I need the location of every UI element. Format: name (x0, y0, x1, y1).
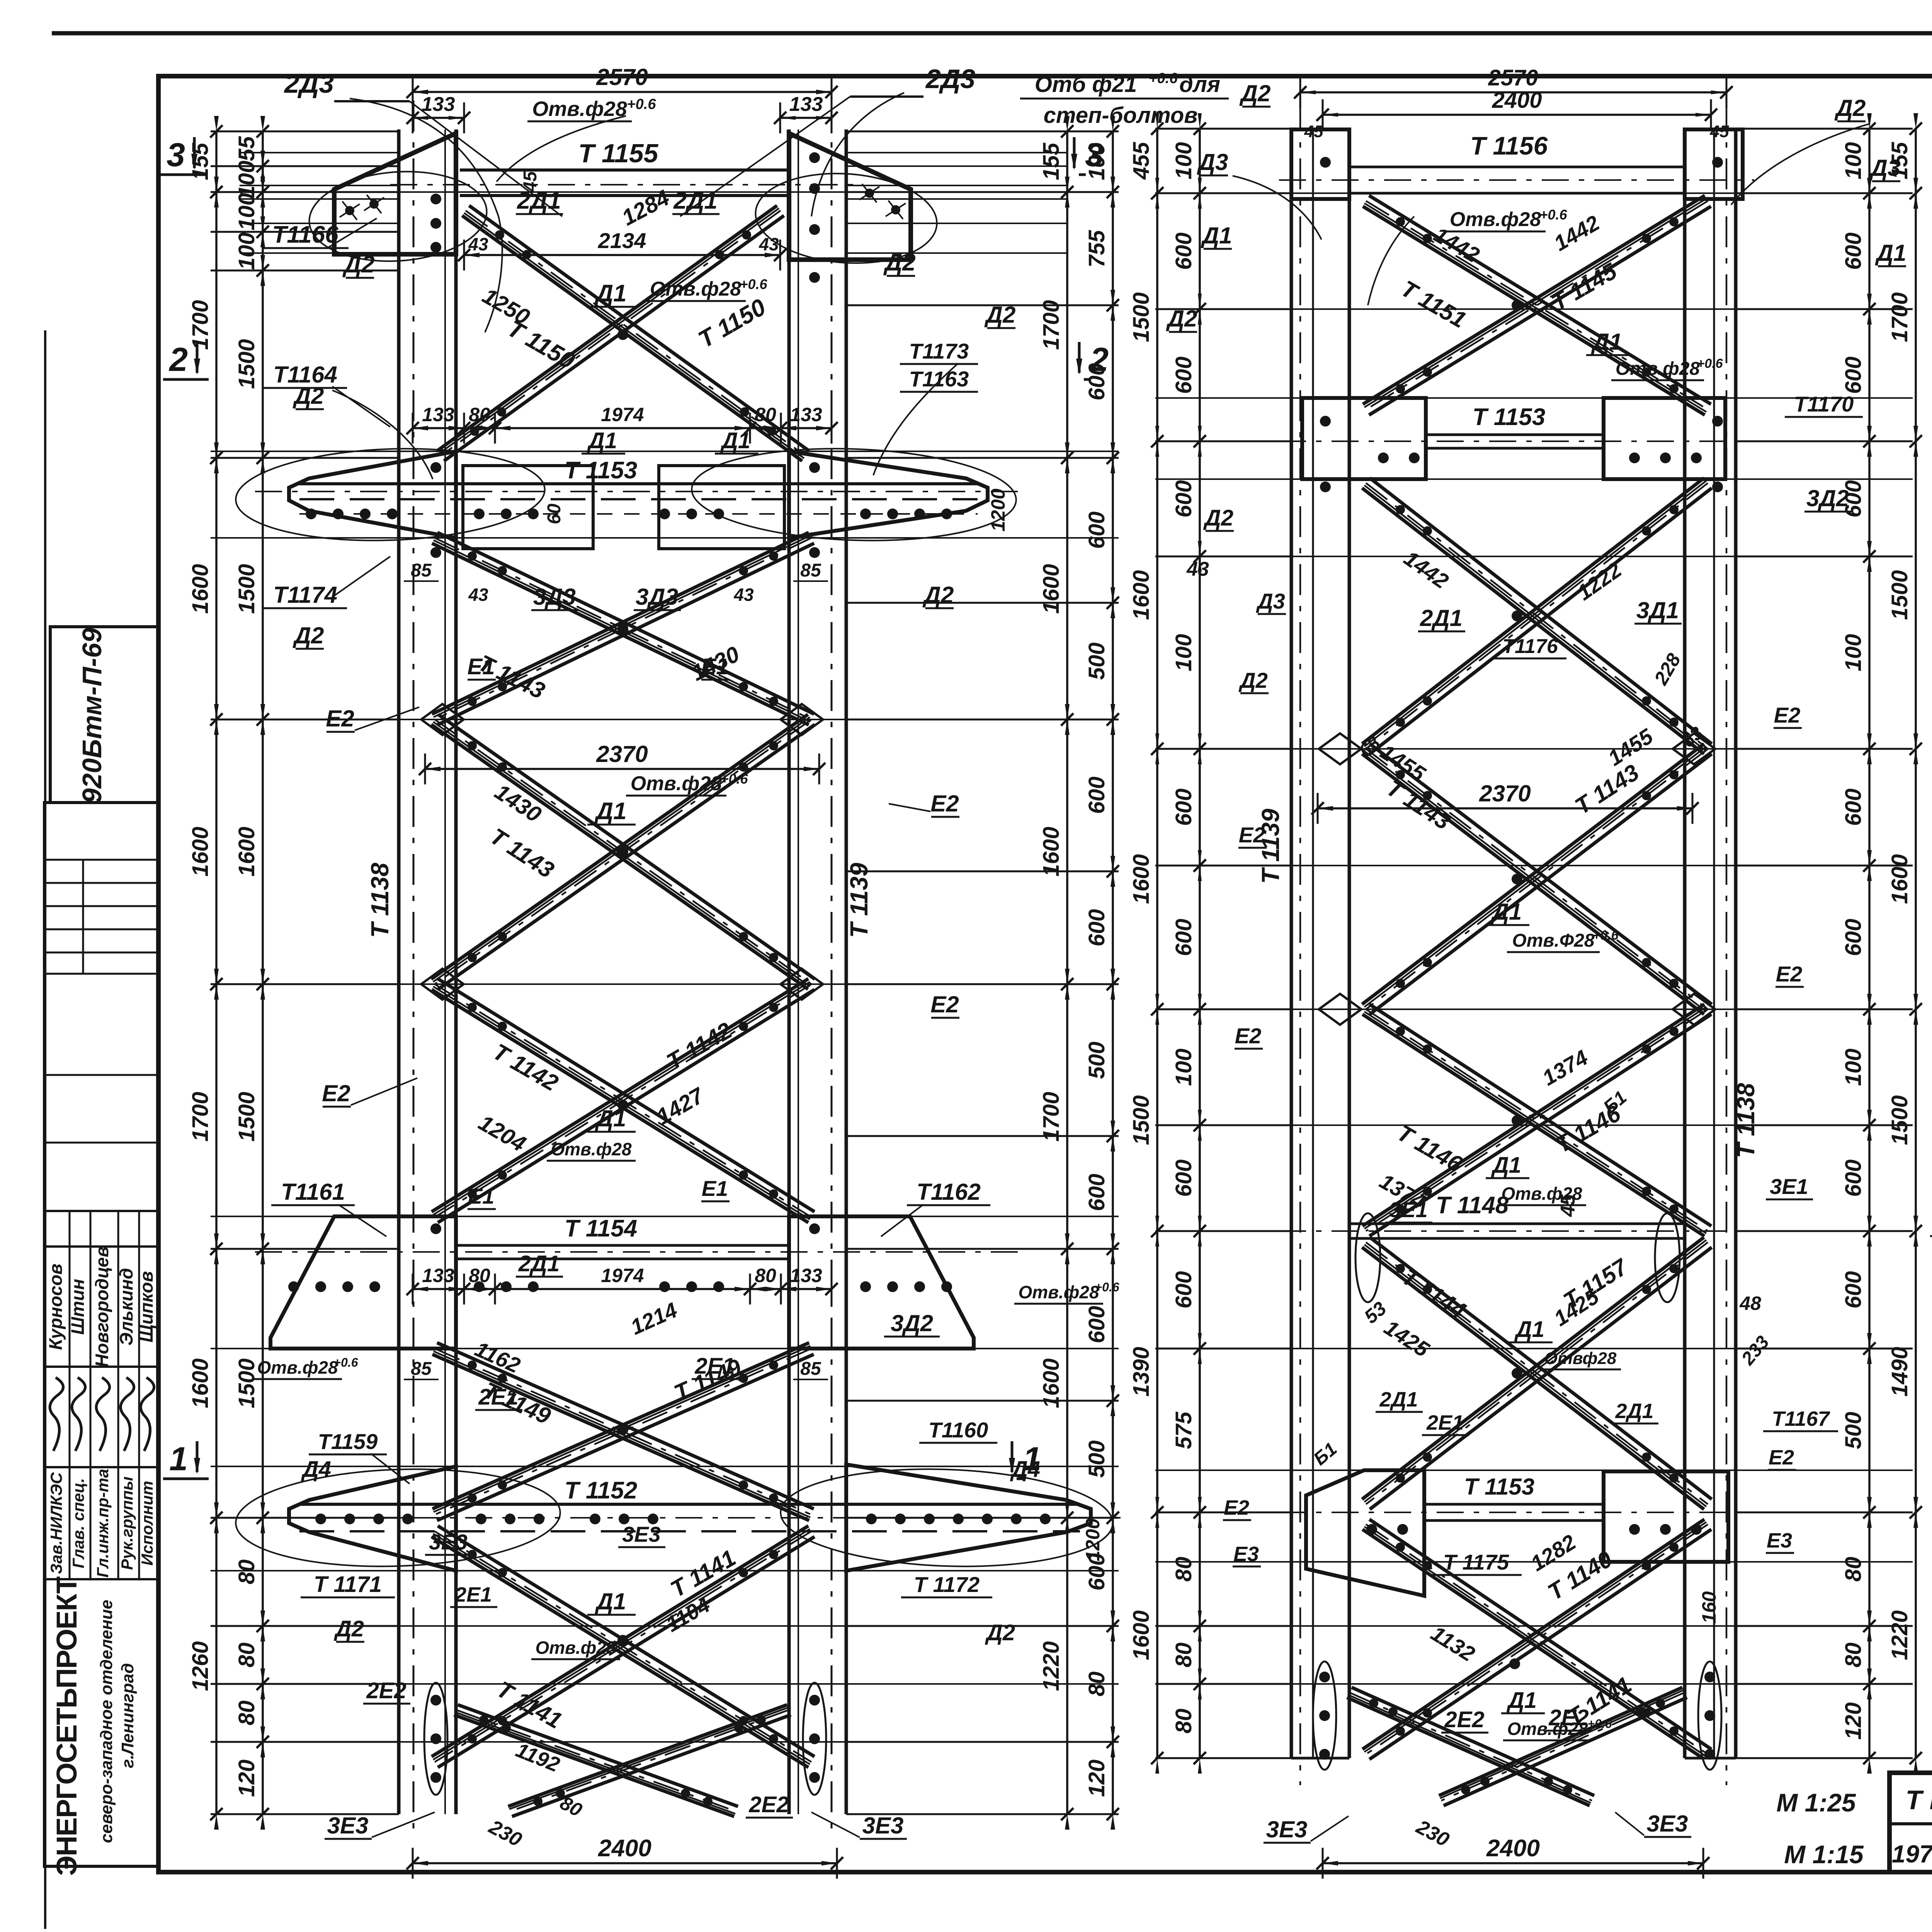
svg-text:Штин: Штин (67, 1279, 88, 1335)
svg-text:Отв.ф28: Отв.ф28 (257, 1357, 338, 1378)
svg-text:80: 80 (755, 1265, 776, 1286)
tower2 X-brace panel 5 (T1144/T1157) (1362, 1247, 1704, 1509)
svg-text:100: 100 (234, 233, 259, 270)
svg-text:Т1173: Т1173 (909, 339, 969, 363)
svg-text:Т 1156: Т 1156 (1470, 131, 1548, 160)
svg-text:Т1163: Т1163 (909, 367, 969, 391)
svg-text:+0.6: +0.6 (333, 1355, 358, 1369)
tower1 level-3 bolt dots (288, 1281, 299, 1292)
svg-text:1600: 1600 (234, 827, 259, 876)
tower1 junction diamonds level 1862 (421, 704, 464, 735)
svg-text:100: 100 (1171, 142, 1196, 180)
svg-text:Т 1154: Т 1154 (565, 1215, 637, 1242)
svg-text:2Е2: 2Е2 (1548, 1705, 1588, 1730)
svg-text:северо-западное отделение: северо-западное отделение (97, 1600, 116, 1843)
svg-text:+0.6: +0.6 (1148, 70, 1178, 87)
svg-text:Д1: Д1 (720, 428, 750, 453)
svg-text:Т1167: Т1167 (1772, 1407, 1830, 1430)
svg-text:80: 80 (1841, 1643, 1866, 1668)
svg-text:600: 600 (1171, 1271, 1196, 1309)
svg-text:575: 575 (1171, 1412, 1196, 1449)
svg-text:1600: 1600 (188, 564, 213, 614)
svg-text:2Е1: 2Е1 (478, 1384, 518, 1410)
tower1 bottom belt bolt rows (315, 1514, 326, 1524)
svg-text:80: 80 (1171, 1557, 1196, 1582)
svg-text:Отвф28: Отвф28 (1544, 1349, 1617, 1368)
tower1 X-brace panel 3 (431, 724, 808, 989)
svg-text:1600: 1600 (188, 1358, 213, 1408)
svg-text:Д1: Д1 (1506, 1688, 1537, 1713)
tower1 level-3 left plate T1161 (270, 1216, 456, 1349)
svg-text:1200: 1200 (987, 488, 1009, 531)
svg-text:1500: 1500 (1887, 1095, 1912, 1145)
tower1 right chord T1139 (787, 129, 791, 1814)
tower2 right dim columns (1868, 129, 1871, 1758)
svg-text:ЭНЕРГОСЕТЬПРОЕКТ: ЭНЕРГОСЕТЬПРОЕКТ (51, 1577, 83, 1876)
svg-text:3Е3: 3Е3 (1266, 1816, 1308, 1842)
svg-text:Т 1148: Т 1148 (1436, 1192, 1509, 1219)
svg-text:+0.6: +0.6 (627, 96, 656, 112)
svg-text:80: 80 (1841, 1557, 1866, 1582)
tower1 right dim column C (1066, 131, 1068, 1814)
tower1 top zone sub-dim lines right (846, 152, 1066, 153)
svg-text:2570: 2570 (1488, 65, 1538, 90)
tower1 level-3 right plate T1162 (789, 1216, 974, 1349)
tower2 belt T1148 (1349, 1223, 1685, 1225)
tower1 apex leader lines 2Д3 (334, 100, 410, 102)
left stamp signatures (scribbles) (50, 1378, 63, 1451)
tower1 X-brace panel 2 (T1143) (432, 543, 809, 725)
svg-text:600: 600 (1171, 1160, 1196, 1197)
svg-text:Е2: Е2 (322, 1080, 350, 1106)
svg-text:2Е2: 2Е2 (366, 1678, 406, 1703)
tower1 left chord T1138 (397, 129, 401, 1814)
svg-text:Д2: Д2 (922, 582, 954, 608)
svg-text:55: 55 (234, 136, 259, 161)
svg-text:45: 45 (1710, 122, 1729, 141)
svg-text:Е3: Е3 (1767, 1529, 1792, 1552)
svg-text:80: 80 (1171, 1643, 1196, 1668)
svg-text:Е2: Е2 (1224, 1496, 1249, 1519)
svg-text:1700: 1700 (1039, 300, 1064, 350)
svg-text:+0.6: +0.6 (740, 276, 767, 292)
tower2 top dims (1300, 91, 1726, 94)
svg-text:+0.6: +0.6 (720, 771, 748, 787)
tower1 X-brace T1150 panel 1 (462, 216, 802, 461)
svg-text:Д3: Д3 (1256, 589, 1285, 613)
tower2 lower belt T1153 (1424, 1503, 1604, 1506)
svg-text:1600: 1600 (1129, 1610, 1154, 1660)
svg-text:600: 600 (1841, 233, 1866, 270)
tower2 X-brace panel 4 (T1146) (1362, 1014, 1704, 1236)
svg-text:Д2: Д2 (342, 251, 374, 278)
svg-text:43: 43 (468, 585, 488, 605)
svg-text:Т1159: Т1159 (318, 1429, 378, 1454)
svg-text:1260: 1260 (188, 1641, 213, 1691)
svg-text:80: 80 (234, 1701, 259, 1726)
svg-text:Д2: Д2 (1203, 505, 1233, 531)
svg-text:160: 160 (1698, 1591, 1720, 1624)
tower2 right extension lines (1736, 128, 1913, 130)
svg-text:Т1174: Т1174 (273, 582, 337, 608)
svg-text:Т 1171: Т 1171 (314, 1572, 382, 1597)
svg-text:43: 43 (733, 585, 754, 605)
tower1 level-2 wing outline curves (234, 444, 546, 546)
svg-text:2Е2: 2Е2 (748, 1792, 789, 1817)
dim columns between towers (1156, 129, 1158, 1758)
tower1 top 133 dims (413, 117, 464, 119)
svg-text:Д2: Д2 (985, 1620, 1015, 1645)
svg-text:Д2: Д2 (883, 249, 915, 276)
svg-text:1500: 1500 (234, 1358, 259, 1408)
svg-text:1600: 1600 (1129, 854, 1154, 904)
svg-text:1220: 1220 (1887, 1610, 1912, 1660)
tower1 top wing outline curves (306, 166, 490, 267)
tower1 junction diamonds level 2547 (421, 969, 464, 1000)
tower2 left extension lines (1155, 128, 1291, 130)
svg-text:600: 600 (1084, 1306, 1109, 1344)
svg-text:Е2: Е2 (1776, 962, 1803, 986)
svg-text:Отв.Ф28: Отв.Ф28 (1512, 930, 1595, 951)
svg-text:1700: 1700 (1039, 1092, 1064, 1141)
svg-text:43: 43 (468, 234, 488, 254)
left stamp person column dividers (69, 1211, 71, 1579)
svg-text:Д2: Д2 (1834, 95, 1866, 121)
svg-text:1600: 1600 (1039, 827, 1064, 876)
svg-text:1600: 1600 (1039, 564, 1064, 614)
tower2 X-brace panel 2 (1362, 488, 1704, 754)
svg-text:60: 60 (544, 503, 565, 524)
svg-text:500: 500 (1084, 1042, 1109, 1079)
svg-text:Д1: Д1 (595, 1105, 626, 1131)
svg-text:Т 1138: Т 1138 (1732, 1083, 1760, 1158)
svg-text:М 1:15: М 1:15 (1784, 1840, 1864, 1869)
svg-text:М 1:25: М 1:25 (1776, 1788, 1856, 1817)
svg-text:Д4: Д4 (301, 1457, 331, 1482)
tower2 bottom-right plate (1604, 1471, 1728, 1562)
svg-text:600: 600 (1171, 789, 1196, 826)
tower2 level T1153 right plate T1170 (1604, 398, 1725, 479)
svg-text:2Д1: 2Д1 (1420, 605, 1463, 631)
svg-text:+0.6: +0.6 (1095, 1280, 1119, 1294)
svg-text:Т1176: Т1176 (1502, 635, 1558, 658)
svg-text:133: 133 (422, 93, 455, 116)
svg-text:3Д2: 3Д2 (891, 1310, 933, 1336)
svg-text:3Е3: 3Е3 (327, 1813, 369, 1838)
svg-text:1500: 1500 (234, 564, 259, 614)
svg-text:1500: 1500 (234, 1092, 259, 1141)
svg-text:2370: 2370 (596, 741, 648, 767)
svg-text:600: 600 (1841, 357, 1866, 394)
svg-text:Е1: Е1 (468, 654, 495, 679)
svg-text:133: 133 (790, 1265, 822, 1286)
tower1 top-left gusset plate T1166 (334, 133, 456, 254)
svg-text:Д1: Д1 (1875, 240, 1906, 266)
sheet outer top edge line (52, 31, 1932, 36)
svg-text:3Д1: 3Д1 (1636, 597, 1679, 623)
svg-text:Глав. спец.: Глав. спец. (69, 1478, 87, 1568)
svg-text:120: 120 (1841, 1702, 1866, 1740)
tower1 bottom-left wing plate T1159 (289, 1466, 456, 1571)
svg-text:Д1: Д1 (594, 798, 626, 825)
svg-text:2Е1: 2Е1 (1426, 1411, 1464, 1434)
tower2 bottom chord bolt ovals (1313, 1662, 1336, 1770)
svg-text:1600: 1600 (1129, 570, 1154, 620)
svg-text:Отв.ф28: Отв.ф28 (535, 1638, 616, 1658)
svg-text:2Д3: 2Д3 (284, 68, 334, 99)
tower1 level-2 left wing plate T1164 (289, 451, 456, 538)
svg-text:Е1: Е1 (702, 1176, 728, 1201)
svg-text:Отв.ф28: Отв.ф28 (631, 772, 722, 795)
svg-text:Е1: Е1 (468, 1184, 495, 1208)
svg-text:3: 3 (1085, 136, 1104, 173)
svg-text:1220: 1220 (1039, 1641, 1064, 1691)
left stamp rows (empty upper cells) (44, 859, 158, 861)
tower1 belt T1153 level 2 (299, 482, 978, 485)
svg-text:Отб ф21: Отб ф21 (1035, 72, 1137, 97)
svg-text:80: 80 (755, 404, 776, 425)
svg-text:2570: 2570 (596, 64, 648, 90)
tower2 top chord head plates (1291, 129, 1349, 199)
svg-text:Новгородцев: Новгородцев (92, 1246, 112, 1367)
svg-text:600: 600 (1084, 512, 1109, 549)
tower1 left extension lines (211, 131, 399, 133)
svg-text:Отв.ф28: Отв.ф28 (1450, 208, 1541, 231)
svg-text:1700: 1700 (188, 1092, 213, 1141)
svg-text:600: 600 (1841, 480, 1866, 518)
svg-text:80: 80 (234, 1643, 259, 1668)
svg-text:1700: 1700 (1887, 292, 1912, 342)
svg-text:Е2: Е2 (1239, 823, 1265, 847)
tower2 right chord T1138 (1683, 129, 1687, 1758)
svg-text:Рук.группы: Рук.группы (118, 1476, 136, 1570)
svg-text:2Д1: 2Д1 (673, 187, 718, 214)
svg-text:2Д1: 2Д1 (517, 187, 561, 214)
tower1 level-2 mid plates (463, 466, 593, 549)
svg-text:45: 45 (1557, 1194, 1579, 1217)
svg-text:Д1: Д1 (595, 1588, 626, 1614)
svg-text:3Д3: 3Д3 (636, 584, 678, 610)
svg-text:1500: 1500 (1129, 292, 1154, 342)
svg-text:3Е3: 3Е3 (1647, 1811, 1688, 1837)
svg-text:755: 755 (1084, 230, 1109, 268)
tower1 belt T1152 (299, 1503, 1080, 1506)
svg-text:Т 1153: Т 1153 (1473, 404, 1545, 430)
left stamp: document code box 920Бтм-П-69 (50, 627, 158, 803)
svg-text:для: для (1179, 72, 1220, 97)
tower2 chord bottom ends (1291, 1757, 1349, 1760)
svg-text:600: 600 (1171, 480, 1196, 518)
tower1 left dim column A (215, 131, 218, 1814)
svg-text:80: 80 (469, 1265, 490, 1286)
tower1 bottom-right wing plate T1160 (846, 1464, 1091, 1571)
tower2 left chord T1139 (1290, 129, 1293, 1758)
svg-text:2134: 2134 (598, 228, 646, 253)
svg-text:Отв.ф28: Отв.ф28 (551, 1139, 632, 1159)
svg-text:2Д1: 2Д1 (1615, 1400, 1653, 1423)
svg-text:133: 133 (422, 404, 454, 425)
svg-text:3: 3 (167, 136, 185, 173)
svg-text:1976г: 1976г (1892, 1840, 1932, 1868)
svg-text:Т1162: Т1162 (917, 1179, 981, 1205)
svg-text:600: 600 (1841, 1271, 1866, 1309)
svg-text:Т 1153: Т 1153 (1464, 1474, 1534, 1500)
svg-text:500: 500 (1084, 643, 1109, 680)
svg-text:1600: 1600 (1887, 854, 1912, 904)
left stamp table outline (44, 803, 158, 1866)
svg-text:Д1: Д1 (1514, 1317, 1544, 1342)
svg-text:155: 155 (1039, 143, 1064, 180)
svg-text:2Д3: 2Д3 (925, 64, 975, 94)
svg-text:степ-болтов: степ-болтов (1044, 103, 1198, 128)
svg-text:+0.6: +0.6 (1592, 928, 1619, 943)
svg-text:Т1170: Т1170 (1794, 392, 1854, 416)
tower1 bottom dimension 2400 (413, 1862, 837, 1864)
svg-text:600: 600 (1084, 777, 1109, 814)
svg-text:600: 600 (1171, 357, 1196, 394)
svg-text:3Е3: 3Е3 (429, 1530, 468, 1554)
svg-text:Е2: Е2 (326, 706, 354, 731)
svg-text:г.Ленинград: г.Ленинград (118, 1663, 137, 1768)
svg-text:2400: 2400 (1486, 1835, 1540, 1862)
svg-text:Исполнит: Исполнит (138, 1481, 156, 1565)
svg-text:80: 80 (234, 1560, 259, 1585)
svg-text:100: 100 (1841, 1049, 1866, 1086)
svg-text:2Д1: 2Д1 (518, 1251, 560, 1276)
svg-text:Т1160: Т1160 (929, 1418, 988, 1442)
tower1 bottom stub braces 2E2 (454, 1715, 734, 1816)
svg-text:Т 1172: Т 1172 (914, 1572, 980, 1597)
svg-text:1: 1 (169, 1440, 188, 1478)
svg-text:43: 43 (759, 234, 779, 254)
tower1 bottom chord bolt ovals (424, 1683, 447, 1795)
svg-text:Элькинд: Элькинд (116, 1268, 136, 1346)
svg-text:80: 80 (469, 404, 490, 425)
tower1 level-2 right wing plate T1163 (789, 451, 988, 538)
svg-text:Д2: Д2 (293, 383, 324, 409)
svg-text:Т 1139: Т 1139 (845, 862, 873, 938)
svg-text:1390: 1390 (1129, 1347, 1154, 1396)
svg-text:2400: 2400 (598, 1835, 651, 1862)
svg-text:3Е3: 3Е3 (622, 1522, 661, 1546)
svg-text:600: 600 (1841, 919, 1866, 956)
svg-text:3Е3: 3Е3 (862, 1813, 904, 1838)
tower2 level T1153 left plate (1302, 398, 1426, 479)
svg-text:Отв.ф28: Отв.ф28 (1616, 359, 1700, 379)
svg-text:Д1: Д1 (1491, 1153, 1521, 1178)
tower1 top zone 100/55 sub-dim lines left (240, 152, 399, 153)
svg-text:3Е1: 3Е1 (1770, 1174, 1808, 1199)
tower1 bottom wing outline curves (234, 1464, 562, 1571)
tower1 left dim column B (262, 131, 264, 1814)
svg-text:80: 80 (1171, 1709, 1196, 1734)
svg-text:Д1: Д1 (594, 280, 626, 307)
tower2 curved leaders (1233, 176, 1321, 240)
tower1 belt T1154 (456, 1244, 789, 1247)
tower1 curved leader lines (freehand style) (350, 99, 502, 332)
tower2 full-width level lines (1155, 192, 1913, 194)
svg-text:Т1166: Т1166 (272, 221, 338, 248)
svg-text:Д1: Д1 (1591, 329, 1622, 355)
tower1 right dim column D (1112, 131, 1114, 1814)
svg-text:2Е2: 2Е2 (1444, 1707, 1484, 1732)
svg-text:155: 155 (1887, 142, 1912, 180)
svg-text:Зав.НИЛКЭС: Зав.НИЛКЭС (47, 1472, 65, 1574)
svg-text:Щипков: Щипков (136, 1271, 156, 1343)
svg-text:+0.6: +0.6 (1697, 356, 1723, 371)
tower1 level-2 bolt rows (306, 509, 316, 519)
tower1 X-brace panel 5 (T1149) (432, 1354, 809, 1520)
svg-text:Отв.ф28: Отв.ф28 (650, 278, 741, 300)
svg-text:Д1: Д1 (587, 428, 617, 453)
svg-text:Д2: Д2 (293, 622, 324, 648)
title block outline (1889, 1773, 1932, 1872)
tower1 top dimension 2570 (413, 91, 832, 93)
svg-text:600: 600 (1841, 1160, 1866, 1197)
svg-text:3Е1: 3Е1 (1389, 1197, 1428, 1222)
tower1 full-width level lines (211, 191, 1119, 193)
svg-text:Т 1152: Т 1152 (565, 1477, 637, 1504)
tower1 top belt T1155 (460, 168, 789, 172)
svg-text:133: 133 (422, 1265, 454, 1286)
tower2 bottom-left plate (1306, 1470, 1424, 1596)
svg-text:920Бтм-П-69: 920Бтм-П-69 (77, 628, 107, 803)
svg-text:Т К: Т К (1905, 1785, 1932, 1815)
tower2 junction diamonds 2612 (1319, 994, 1361, 1025)
svg-text:2: 2 (168, 341, 188, 378)
svg-text:Д2: Д2 (333, 1616, 364, 1641)
svg-text:2Д1: 2Д1 (1379, 1388, 1418, 1411)
tower1 lower h-dim 1974 with 80/133 (413, 1288, 832, 1290)
svg-text:1500: 1500 (234, 339, 259, 389)
svg-text:1974: 1974 (601, 1265, 644, 1286)
tower1 X-brace panel 4 (T1142) (432, 990, 808, 1223)
svg-text:Т 1155: Т 1155 (578, 139, 659, 168)
svg-text:+0.6: +0.6 (1539, 207, 1567, 223)
svg-text:1500: 1500 (1129, 1095, 1154, 1145)
svg-text:500: 500 (1841, 1412, 1866, 1449)
svg-text:Е2: Е2 (930, 992, 959, 1017)
svg-text:Т 1153: Т 1153 (565, 457, 637, 484)
svg-text:600: 600 (1171, 919, 1196, 956)
svg-text:600: 600 (1171, 233, 1196, 270)
svg-text:600: 600 (1084, 1174, 1109, 1211)
svg-text:Д1: Д1 (1201, 223, 1232, 248)
svg-text:48: 48 (1739, 1293, 1761, 1314)
svg-text:133: 133 (789, 93, 823, 116)
svg-text:Гл.инж.пр-та: Гл.инж.пр-та (94, 1469, 112, 1578)
svg-text:1974: 1974 (601, 404, 644, 425)
svg-text:120: 120 (1084, 1760, 1109, 1797)
svg-text:Е2: Е2 (930, 791, 959, 816)
svg-text:100: 100 (1841, 634, 1866, 672)
svg-text:1490: 1490 (1887, 1347, 1912, 1396)
svg-text:Е2: Е2 (1774, 703, 1801, 727)
svg-text:Курносов: Курносов (45, 1264, 66, 1350)
tower1 2134 dim (464, 254, 780, 256)
svg-text:100: 100 (1171, 634, 1196, 672)
tower1 2370 dim (425, 768, 819, 770)
svg-text:Д2: Д2 (1239, 80, 1271, 106)
svg-text:Д1: Д1 (1490, 899, 1522, 925)
svg-text:500: 500 (1084, 1440, 1109, 1478)
tower2 belt T1153 (1426, 434, 1604, 436)
left stamp band separators (44, 1210, 158, 1212)
svg-text:2370: 2370 (1479, 781, 1531, 806)
svg-text:43: 43 (1186, 558, 1209, 580)
svg-text:Д2: Д2 (1238, 668, 1268, 692)
tower2 X-brace panel 1 (T1151/T1145) (1363, 206, 1705, 415)
